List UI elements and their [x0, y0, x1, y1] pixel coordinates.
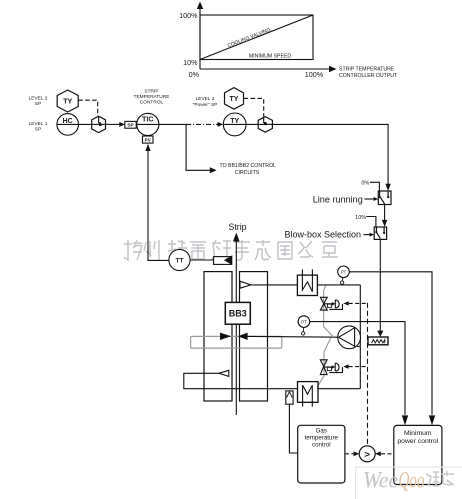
- PT1: [338, 266, 350, 278]
- duct lower left: [184, 373, 298, 388]
- gray bypass pipes: [318, 285, 334, 389]
- svg-text:STRIP: STRIP: [144, 89, 158, 95]
- PV box under TIC: [143, 136, 154, 143]
- svg-text:STRIP TEMPERATURE: STRIP TEMPERATURE: [339, 67, 395, 73]
- valve V2: [320, 360, 342, 375]
- TT circle: [169, 249, 190, 270]
- svg-text:BB3: BB3: [229, 309, 247, 319]
- switch SW1 contacts: [379, 196, 381, 198]
- BB3 box: [225, 302, 250, 324]
- graph axis arrowheads: [197, 2, 203, 10]
- wire selector S1 to SP box with arrow: [106, 123, 121, 125]
- PT1 wire to min power: [349, 272, 432, 415]
- svg-text:Blow-box Selection: Blow-box Selection: [284, 230, 361, 240]
- watermark center (fake CJK glyphs): [124, 240, 338, 260]
- sensor box in return duct: [286, 391, 293, 404]
- fan suction line: [248, 335, 339, 338]
- fan: [338, 326, 361, 349]
- svg-text:Wee: Wee: [363, 468, 398, 493]
- ramp box VW: [368, 337, 388, 345]
- switch: Line running: [378, 191, 391, 205]
- svg-text:SP: SP: [127, 122, 133, 127]
- selector hexagon S2: [258, 117, 272, 133]
- pyrometer: [190, 259, 214, 261]
- selector hexagon S1: [92, 116, 106, 132]
- wire sensor to gas control: [289, 404, 297, 453]
- wire TT to PV (up arrow): [148, 149, 169, 260]
- svg-text:Line running: Line running: [313, 194, 363, 204]
- STRIP TEMPERATURE CONTROL label: [134, 89, 170, 106]
- gas pipe HX right and loop: [317, 284, 360, 286]
- svg-text:10%: 10%: [183, 58, 198, 67]
- valve V1 signal arrow: [343, 301, 348, 305]
- graph labels: [179, 11, 324, 79]
- dashed wire min power to selector: [381, 453, 394, 455]
- svg-text:PT: PT: [301, 320, 307, 325]
- wire chord through HC: [57, 123, 92, 125]
- Gas temperature control box: [298, 425, 345, 483]
- svg-text:Qoo: Qoo: [399, 468, 425, 493]
- svg-text:Minimum: Minimum: [404, 430, 432, 437]
- furnace right wall: [240, 272, 268, 401]
- svg-text:MINIMUM SPEED: MINIMUM SPEED: [249, 54, 292, 60]
- graph: y-axis: [200, 6, 331, 69]
- svg-text:SP: SP: [35, 127, 41, 133]
- valve V2 signal arrow: [343, 364, 348, 368]
- svg-text:TEMPERATURE: TEMPERATURE: [134, 94, 170, 100]
- svg-text:TIC: TIC: [142, 115, 154, 124]
- wire S2 output to switch 1: [272, 124, 388, 185]
- svg-text:LEVEL 2: LEVEL 2: [29, 96, 48, 102]
- controller TIC: [137, 113, 159, 135]
- SP box: [125, 121, 136, 128]
- wire switch2 output down to ramp box: [379, 239, 381, 331]
- controller HC: [57, 114, 79, 136]
- hexagon TY1: [57, 90, 78, 112]
- svg-text:PV: PV: [145, 137, 152, 142]
- dashed wire gas box to selector: [345, 453, 354, 455]
- svg-text:control: control: [312, 442, 331, 449]
- svg-text:100%: 100%: [179, 11, 198, 20]
- wire TY2 hex to selector S2 (dashed elbow): [244, 98, 264, 116]
- svg-text:100%: 100%: [305, 70, 324, 79]
- wire TY1 to selector (dashed elbow): [78, 100, 98, 116]
- svg-text:PT: PT: [341, 270, 347, 275]
- svg-text:power control: power control: [397, 438, 438, 445]
- wire TIC output (solid then dash-dot to TY): [159, 123, 186, 125]
- svg-text:TY: TY: [63, 99, 72, 106]
- nozzle lower left: [219, 370, 229, 376]
- svg-text:Gas: Gas: [316, 428, 327, 435]
- converter TY2 circle: [223, 113, 246, 136]
- svg-text:TY: TY: [230, 96, 239, 103]
- gray duct rect mid: [191, 336, 282, 348]
- svg-text:0%: 0%: [189, 70, 200, 79]
- svg-text:CONTROLLER OUTPUT: CONTROLLER OUTPUT: [339, 73, 398, 79]
- strip line: [235, 240, 237, 415]
- svg-text:CIRCUITS: CIRCUITS: [235, 170, 260, 176]
- nozzle top right: [240, 281, 251, 288]
- blow arrows at strip: [220, 333, 231, 340]
- svg-text:LEVEL 2: LEVEL 2: [196, 96, 215, 102]
- wire switch1 to switch2: [384, 205, 386, 222]
- LEVEL 2 Power SP label: [193, 96, 218, 108]
- svg-text:CONTROL: CONTROL: [140, 100, 164, 106]
- svg-text:TO BB1/BB2 CONTROL: TO BB1/BB2 CONTROL: [220, 163, 277, 169]
- svg-text:>: >: [364, 449, 370, 460]
- svg-text:SP: SP: [35, 101, 41, 107]
- PT2: [298, 316, 310, 328]
- svg-text:TT: TT: [176, 258, 184, 265]
- fake CJK 维库: [426, 471, 454, 486]
- heater W box: [297, 275, 317, 295]
- svg-text:LEVEL 1: LEVEL 1: [29, 121, 48, 127]
- Minimum power control box: [394, 425, 442, 484]
- svg-text:"Power" SP: "Power" SP: [193, 102, 218, 108]
- svg-text:10%: 10%: [355, 215, 366, 221]
- PT2 wire to min power: [310, 322, 405, 415]
- wire label to switch SW1: [365, 198, 375, 200]
- motor M box: [298, 382, 319, 403]
- svg-text:0%: 0%: [361, 180, 369, 186]
- svg-text:Strip: Strip: [228, 222, 246, 232]
- switch: Blow-box Selection: [374, 227, 386, 239]
- WeeQoo watermark: [356, 467, 462, 499]
- furnace left wall: [204, 272, 232, 401]
- valve V1: [320, 297, 342, 310]
- LEVEL 2 SP label (left): [29, 96, 48, 133]
- svg-text:temperature: temperature: [305, 435, 339, 442]
- selector circle high-select: [359, 446, 375, 462]
- wire label to switch SW2: [364, 234, 371, 236]
- switch SW2 contacts: [375, 231, 377, 233]
- dashed control line vertical: [367, 303, 369, 446]
- hexagon TY2: [225, 88, 244, 110]
- branch TO BB1/BB2: [186, 124, 211, 170]
